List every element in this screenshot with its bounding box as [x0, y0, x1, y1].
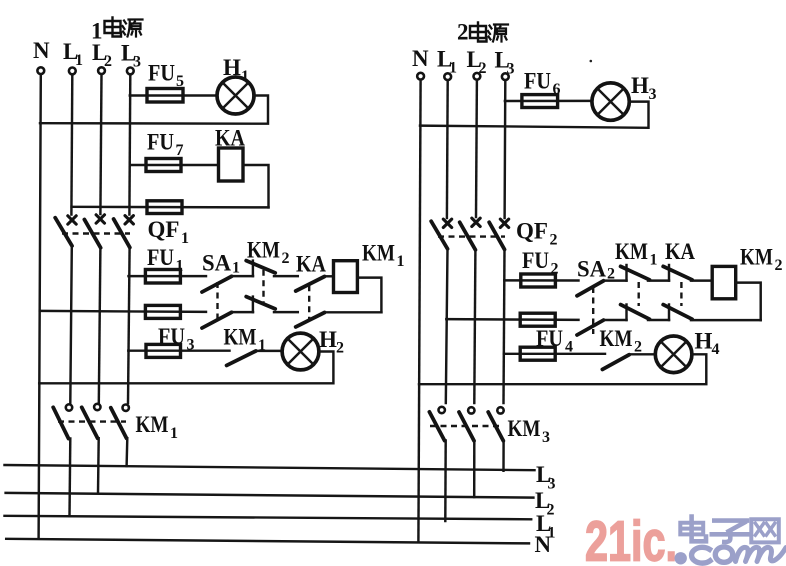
link KM1 dashed	[638, 282, 640, 306]
svg-text:H: H	[631, 73, 649, 98]
svg-text:2: 2	[104, 53, 112, 70]
svg-text:SA: SA	[202, 251, 231, 276]
fuse FU7	[146, 130, 184, 172]
svg-text:FU: FU	[522, 248, 549, 273]
wire KA branch from L3 through FU7	[130, 164, 219, 166]
svg-text:KM: KM	[247, 238, 280, 263]
svg-text:N: N	[412, 46, 429, 71]
wire KM3 pole3 to L3 bus	[502, 441, 505, 471]
wire KM1 to KA contact	[648, 279, 669, 281]
wire KM3 pole1 to L1 bus	[444, 441, 447, 522]
wire KM1 pole1 to L1 bus	[68, 439, 71, 517]
wire KM2 to KA contact	[274, 275, 298, 277]
link SA1 dashed	[216, 282, 218, 319]
svg-text:H: H	[695, 329, 713, 354]
breaker QF2	[431, 218, 557, 250]
svg-text:2: 2	[457, 20, 469, 45]
contact KA NO pole 1	[296, 252, 327, 292]
svg-text:QF: QF	[148, 217, 180, 242]
wire KA to KM2 coil	[691, 279, 712, 281]
contact KA NO pole 2	[296, 313, 325, 327]
wire KM1 pole3 to L3 bus	[125, 438, 128, 466]
bus N	[6, 539, 529, 544]
wire L1 vertical after QF1	[70, 246, 72, 403]
bus L1	[5, 516, 532, 520]
svg-text:3: 3	[542, 429, 550, 446]
svg-text:7: 7	[176, 142, 184, 159]
wire KM2 pole2 to KA pole2	[274, 311, 298, 313]
svg-text:1: 1	[232, 260, 240, 277]
wire KA right loop down	[243, 165, 269, 207]
wire FU1 row from L3 to SA1	[129, 275, 207, 277]
svg-text:3: 3	[187, 337, 195, 354]
svg-text:FU: FU	[148, 61, 175, 86]
contactor coil KM1	[334, 241, 405, 293]
watermark 子 glyph	[712, 521, 749, 542]
lamp H1	[217, 55, 254, 114]
terminal L3 (source 1)	[121, 41, 141, 75]
switch SA2 pole 1	[577, 257, 615, 296]
fuse FU5	[147, 61, 184, 103]
terminal L1 (source 2)	[437, 47, 457, 81]
link KA dashed	[308, 285, 310, 320]
wire KM1 contact to H2	[256, 350, 283, 352]
svg-text:1: 1	[397, 253, 405, 270]
svg-text:FU: FU	[524, 69, 551, 94]
wire FU2 row from L3 to SA2	[504, 279, 578, 282]
svg-text:4: 4	[712, 341, 720, 358]
contact KM1 NO (lamp)	[224, 325, 267, 366]
link KM2 dashed	[262, 270, 264, 304]
svg-text:FU: FU	[147, 130, 174, 155]
svg-text:1: 1	[181, 230, 189, 247]
wire KA contact to KM1 coil	[325, 275, 334, 277]
terminal L2 (source 1)	[92, 40, 112, 74]
watermark 网 glyph	[751, 519, 779, 542]
svg-text:SA: SA	[577, 257, 606, 282]
terminal N (source 1)	[33, 38, 50, 74]
wire L2 vertical (source 1)	[100, 74, 101, 214]
wire KM3 pole2 to L2 bus	[473, 441, 476, 497]
speck dot	[590, 60, 593, 63]
link KA dashed	[680, 282, 682, 306]
lamp H3	[592, 73, 657, 120]
wire N row to SA1 pole 2	[40, 311, 206, 312]
fuse FU1 lower pole	[145, 305, 180, 318]
svg-text:H: H	[319, 327, 337, 352]
wire KA pole2 to coil loop corner	[691, 319, 761, 321]
svg-text:3: 3	[133, 54, 141, 71]
contact KM1 NC pole 1	[615, 239, 658, 281]
wire L1 vertical (source 2)	[446, 80, 449, 218]
wire KA pole2 to coil loop corner	[325, 311, 382, 313]
fuse FU2	[521, 248, 559, 287]
svg-text:QF: QF	[516, 219, 548, 244]
wire L1 row to SA2 pole 2	[446, 318, 578, 321]
wire SA1 to KM2 contact	[232, 275, 253, 277]
svg-text:KA: KA	[296, 252, 326, 277]
wire L3 vertical (source 2)	[503, 80, 506, 218]
wire N vertical (source 1)	[39, 74, 41, 539]
link SA2 dashed	[592, 287, 594, 334]
svg-text:1: 1	[170, 425, 178, 442]
wire H3 branch from L3 through FU6	[505, 100, 592, 103]
wire SA1 pole2 to KM2	[232, 311, 253, 313]
wire SA2 pole2 to KM1 pole2	[604, 319, 627, 321]
fuse FU1	[145, 245, 183, 283]
svg-text:1: 1	[650, 252, 658, 269]
breaker QF1	[55, 215, 189, 248]
label bus L3	[536, 462, 556, 493]
svg-text:KM: KM	[508, 416, 541, 441]
fuse FU3	[146, 324, 195, 357]
wire H2 to N return	[39, 352, 333, 384]
contactor coil KM2	[712, 245, 782, 299]
svg-text:21ic.: 21ic.	[585, 510, 677, 566]
svg-text:2: 2	[282, 250, 290, 267]
svg-text:KM: KM	[224, 325, 257, 350]
contact KM2 NC pole 1	[246, 238, 289, 277]
wire L3 vertical after QF2	[504, 249, 505, 403]
label 1电源 (source 1 header)	[91, 18, 143, 44]
svg-text:2: 2	[634, 339, 642, 356]
label 2电源 (source 2 header)	[457, 20, 508, 45]
wire L2 vertical after QF2	[474, 250, 475, 403]
wire KA lower row from L1	[72, 206, 269, 209]
contact KM2 NO (lamp)	[600, 326, 643, 369]
wire FU3 row from L3	[128, 349, 229, 351]
wire N vertical (source 2)	[418, 80, 420, 542]
wire KM1 pole2 to KA pole2	[648, 319, 669, 321]
svg-text:N: N	[33, 38, 50, 63]
svg-text:2: 2	[550, 232, 558, 249]
contact KM1 NC pole 2	[621, 305, 650, 321]
contactor KM3 main contacts	[429, 407, 550, 446]
wire L1 vertical (source 1)	[70, 75, 73, 215]
svg-text:KM: KM	[615, 239, 648, 264]
lamp H4	[655, 329, 719, 373]
contact KA NC pole 2	[663, 305, 692, 321]
bus L2	[6, 493, 534, 498]
svg-text:KA: KA	[665, 239, 695, 264]
contact KA NC pole 1	[663, 239, 695, 281]
terminal L1 (source 1)	[63, 39, 83, 74]
contact KM2 NC pole 2	[246, 297, 275, 313]
terminal N (source 2)	[412, 46, 429, 80]
wire L2 vertical after QF1	[99, 248, 101, 403]
svg-text:4: 4	[565, 339, 573, 356]
fuse FU6	[522, 69, 561, 108]
label bus L1	[536, 511, 556, 542]
wire KM1 pole2 to L2 bus	[97, 438, 100, 493]
svg-text:2: 2	[775, 257, 783, 274]
bus L3	[5, 465, 535, 470]
watermark 电 glyph	[680, 517, 706, 542]
switch SA1 pole 2	[202, 312, 232, 328]
switch SA2 pole 2	[577, 320, 604, 335]
svg-text:KM: KM	[136, 412, 169, 437]
wire H4 to N return	[419, 354, 706, 384]
svg-text:KM: KM	[362, 241, 395, 266]
wire SA2 to KM1 contact	[604, 279, 627, 281]
lamp H2	[282, 327, 344, 370]
watermark .com script	[675, 547, 786, 565]
terminal L2 (source 2)	[467, 47, 487, 80]
wire L1 vertical after QF2	[446, 249, 448, 403]
wire KM2 coil right loop	[736, 283, 761, 321]
contactor KM1 main contacts	[53, 404, 178, 442]
wire L3 vertical after QF1	[128, 248, 130, 404]
wire H1 to N return	[40, 96, 268, 124]
svg-text:1: 1	[75, 52, 83, 69]
wire FU4 row from L3	[504, 353, 605, 355]
wire H3 to N return	[420, 102, 649, 128]
label bus L2	[535, 488, 555, 519]
fuse FU7 lower pole	[147, 201, 182, 214]
fuse FU4	[520, 326, 573, 360]
svg-text:KM: KM	[740, 245, 773, 270]
wire H1 branch from L3 through FU5	[130, 94, 218, 96]
wire L3 vertical (source 1)	[128, 75, 131, 215]
relay coil KA	[215, 126, 245, 182]
terminal L3 (source 2)	[495, 48, 515, 81]
wire KM1 coil right loop	[357, 278, 381, 313]
switch SA1 pole 1	[202, 251, 240, 293]
fuse FU2 lower pole	[520, 313, 555, 326]
svg-text:KM: KM	[600, 326, 633, 351]
svg-text:FU: FU	[147, 245, 174, 270]
svg-text:N: N	[535, 532, 552, 557]
wire L2 vertical (source 2)	[475, 80, 478, 217]
wire KM2 contact to H4	[629, 353, 655, 355]
svg-text:2: 2	[336, 340, 344, 357]
